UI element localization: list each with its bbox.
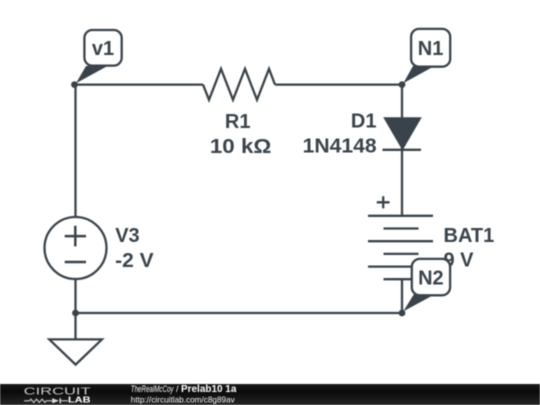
- battery BAT1 plates: [368, 216, 433, 279]
- V3 plus sign: [65, 226, 86, 247]
- wire bottom: ground node to N2 node: [76, 312, 403, 314]
- footer logo zigzag wire: [24, 399, 52, 402]
- svg-text:R1: R1: [225, 111, 251, 133]
- flag N1 box: [411, 29, 450, 67]
- flag N2 tail: [403, 295, 434, 312]
- wire top-left: node v1 to resistor: [75, 83, 204, 85]
- voltage source V3 circle: [45, 217, 107, 279]
- footer logo diode arrow: [52, 398, 59, 403]
- diode D1 triangle: [385, 118, 421, 149]
- svg-text:LAB: LAB: [68, 396, 91, 405]
- footer logo diode bar: [59, 398, 61, 403]
- battery plus sign: [377, 196, 390, 208]
- wire right: N1 node down through diode to battery top: [401, 85, 403, 216]
- flag v1 tail: [76, 66, 108, 83]
- wire right: battery bottom to N2 node: [401, 279, 403, 313]
- svg-text:1N4148: 1N4148: [303, 136, 377, 158]
- wire left: V3 bottom to ground node: [74, 279, 76, 313]
- svg-text:D1: D1: [351, 111, 377, 133]
- wire left: v1 node down to V3 top: [74, 85, 76, 217]
- node dot v1: [71, 81, 78, 88]
- svg-text:http://circuitlab.com/c8g89av: http://circuitlab.com/c8g89av: [131, 394, 236, 404]
- flag N1 tail: [403, 66, 434, 83]
- wire top-right: resistor to node N1: [275, 83, 402, 85]
- resistor R1 zigzag: [203, 69, 275, 100]
- svg-text:BAT1: BAT1: [444, 225, 495, 247]
- node dot N2: [399, 310, 406, 317]
- footer logo wire to LAB: [61, 400, 68, 402]
- svg-text:10 kΩ: 10 kΩ: [210, 136, 272, 158]
- svg-text:N1: N1: [418, 38, 444, 60]
- node dot ground: [72, 310, 79, 317]
- ground triangle: [49, 339, 102, 364]
- svg-text:-2 V: -2 V: [115, 250, 154, 272]
- flag N2 box: [412, 259, 450, 295]
- svg-text:N2: N2: [418, 268, 444, 290]
- footer bar: [0, 384, 540, 405]
- flag v1 box: [84, 30, 121, 66]
- svg-text:v1: v1: [92, 38, 114, 60]
- svg-text:TheRealMcCoy: TheRealMcCoy: [131, 383, 175, 394]
- svg-text:V3: V3: [115, 225, 139, 247]
- ground stem: [74, 313, 76, 340]
- node dot N1: [399, 81, 406, 88]
- diode D1 cathode bar: [383, 149, 422, 151]
- V3 minus sign: [65, 261, 86, 264]
